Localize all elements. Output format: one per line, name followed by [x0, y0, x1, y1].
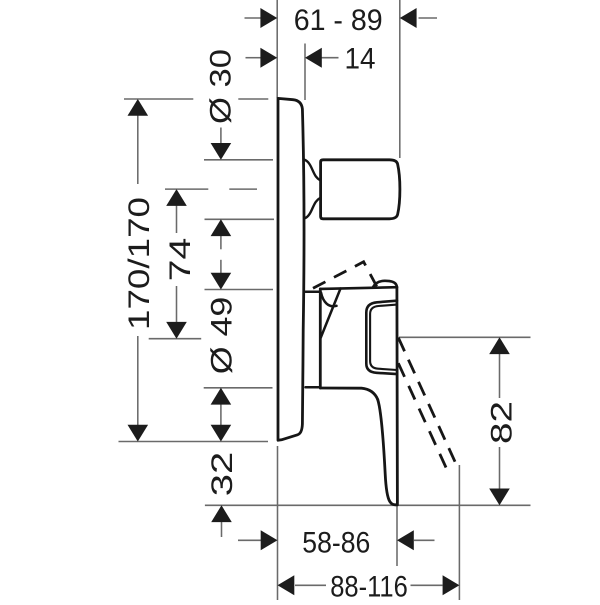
dashed lever raised: outer edge below body — [398, 338, 455, 462]
arrow Ø49 top (points down) — [211, 273, 232, 290]
valve body / lever right edge — [395, 287, 398, 504]
dim 14 tails — [246, 57, 262, 59]
extension line dashed-lever pivot level — [399, 336, 531, 338]
label Ø49 — [206, 297, 239, 375]
tail below 32 arrow — [221, 522, 223, 537]
svg-text:88-116: 88-116 — [330, 571, 408, 601]
recess outer outline — [366, 301, 397, 374]
extension line plate bottom — [119, 441, 269, 443]
extension line knob right (61-89 dim) — [399, 0, 401, 158]
extension line plate right (14 dim) — [304, 44, 306, 101]
arrow 14 right — [305, 48, 322, 68]
valve body top edge with lip — [320, 287, 397, 289]
arrow 58-86 right — [397, 530, 414, 550]
knob stem upper curve — [305, 160, 321, 181]
arrow Ø30 bottom (points up) — [211, 219, 232, 236]
arrow 74 bottom (points down) — [166, 322, 187, 339]
arrow 14 left — [260, 48, 277, 68]
arrow 82 bottom (points down) — [489, 489, 510, 506]
recess inner outline — [370, 305, 397, 370]
arrow 61-89 left — [260, 8, 277, 28]
extension line plate top — [124, 98, 193, 100]
svg-text:170/170: 170/170 — [123, 197, 156, 330]
label Ø30 — [205, 49, 238, 124]
svg-text:Ø 30: Ø 30 — [205, 49, 238, 124]
extension line left (wall plane / plate left) vertical top — [276, 0, 278, 98]
chain tail between Ø49 and 32 — [220, 405, 222, 427]
label 74 — [164, 238, 197, 282]
arrow 170/170 bottom — [128, 425, 149, 442]
arrow 74 top (points up) — [166, 189, 187, 206]
arrow Ø49 bottom (points up) — [211, 388, 232, 405]
arrow 170/170 top — [128, 99, 149, 116]
extension line body bottom — [204, 387, 273, 389]
connector flange bottom edge — [306, 386, 320, 389]
valve body left edge — [319, 289, 322, 388]
extension line 58-86 right vertical — [396, 505, 398, 566]
extension line 88-116 right vertical — [458, 465, 460, 600]
knob stem lower curve — [305, 198, 321, 219]
dim 82 line segments — [499, 354, 501, 399]
svg-text:61 - 89: 61 - 89 — [294, 4, 383, 37]
dashed lever raised: back edge up to apex and down to body lip — [313, 262, 377, 289]
extension line knob bottom — [205, 218, 275, 220]
lever cone diagonal — [321, 289, 341, 338]
valve body bottom edge into lever — [320, 388, 377, 400]
svg-text:82: 82 — [485, 401, 518, 444]
svg-text:74: 74 — [164, 238, 197, 282]
extension line 74 bottom — [149, 338, 202, 340]
extension line knob top — [204, 159, 273, 161]
dim Ø30 tail above — [220, 128, 222, 144]
dim 170/170 line segments — [137, 115, 139, 184]
chain tail between Ø30 and Ø49 — [220, 236, 222, 249]
svg-text:58-86: 58-86 — [302, 527, 370, 560]
arrow 32 bottom (points up) — [211, 505, 232, 522]
knob centerline dashes — [165, 188, 208, 190]
connector flange top edge — [306, 291, 320, 294]
arrow 32 top (points down) — [211, 425, 232, 442]
escutcheon plate outline — [278, 98, 304, 440]
arrow 58-86 left — [261, 530, 278, 550]
knob (Ø30 handle) — [321, 160, 400, 219]
arrow 88-116 left (points left) — [278, 575, 295, 595]
label 82 — [485, 401, 518, 444]
extension line 88-116 left vertical — [277, 446, 279, 600]
dim 88-116 tails — [295, 584, 326, 586]
svg-text:32: 32 — [206, 452, 239, 497]
arrow 88-116 right (points right) — [443, 575, 460, 595]
label 170/170 — [123, 197, 156, 330]
arrow Ø30 top (points down) — [211, 143, 232, 160]
dim 74 tail segments — [176, 206, 178, 234]
svg-text:14: 14 — [345, 43, 376, 76]
arrow 82 top (points up) — [489, 337, 510, 354]
dashed lever raised: inner edge below body — [398, 363, 446, 467]
extension line body top — [205, 289, 274, 291]
lever (down position) left edge and tip — [378, 400, 398, 505]
arrow 61-89 right — [400, 8, 417, 28]
lever cone inner curve — [321, 293, 337, 307]
svg-text:Ø 49: Ø 49 — [206, 297, 239, 375]
dim 58-86 tails — [238, 539, 261, 541]
extension line lever tip level (long) — [205, 504, 531, 506]
dim 61-89 tails — [245, 17, 262, 19]
label 32 — [206, 452, 239, 497]
